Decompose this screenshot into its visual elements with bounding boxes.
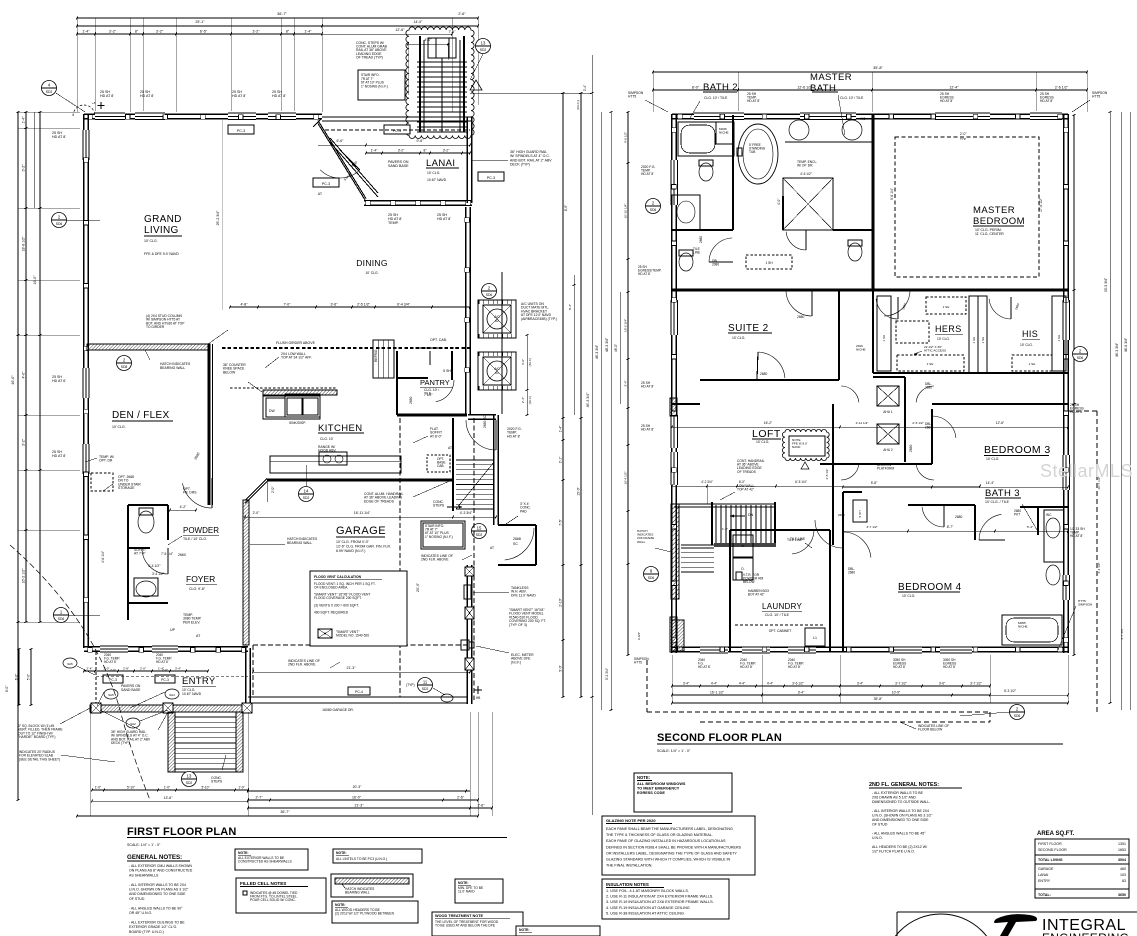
svg-text:U.N.O. SHOWN ON PLANS AS 3 1/2: U.N.O. SHOWN ON PLANS AS 3 1/2" — [129, 888, 189, 892]
svg-text:STORAGE: STORAGE — [118, 486, 135, 490]
svg-text:NOTE:: NOTE: — [637, 775, 650, 780]
svg-text:2X6 DRAWN AS 5 1/2" AND: 2X6 DRAWN AS 5 1/2" AND — [872, 796, 916, 800]
reference circle 1/SD6 left lower — [54, 608, 69, 623]
svg-text:5'-8": 5'-8" — [871, 481, 878, 485]
svg-text:14'-4": 14'-4" — [986, 481, 995, 485]
interior dim row mid plan — [230, 306, 470, 308]
svg-text:5'-3 1/2": 5'-3 1/2" — [1004, 689, 1017, 693]
svg-text:SAND BASE: SAND BASE — [121, 688, 141, 692]
mud hall wall y415 — [397, 414, 467, 417]
svg-text:5'-0": 5'-0" — [27, 674, 31, 680]
svg-text:TUB: TUB — [749, 150, 755, 154]
svg-text:BEDROOM: BEDROOM — [973, 216, 1025, 227]
svg-text:PC-3: PC-3 — [322, 182, 330, 186]
svg-text:4'-2 3/4": 4'-2 3/4" — [701, 480, 713, 484]
smart vent xbox 1 — [465, 567, 474, 576]
second floor bottom dim row 35'-8 — [672, 702, 1068, 704]
foyer sink oval — [136, 581, 156, 597]
svg-text:3'-2": 3'-2" — [156, 30, 164, 34]
svg-text:10' CLG.: 10' CLG. — [756, 440, 769, 444]
svg-text:14'-0": 14'-0" — [414, 20, 423, 24]
svg-text:3'-4": 3'-4" — [798, 691, 805, 695]
svg-text:HD AT 8': HD AT 8' — [893, 665, 906, 669]
svg-text:10' CLG.: 10' CLG. — [144, 239, 158, 243]
svg-text:1'-4": 1'-4" — [559, 425, 563, 432]
svg-text:W/ 24" DR.: W/ 24" DR. — [797, 164, 813, 168]
svg-text:LANAI: LANAI — [426, 158, 455, 169]
svg-text:HD AT 8': HD AT 8' — [641, 385, 654, 389]
svg-text:SD6: SD6 — [1014, 714, 1021, 718]
svg-text:5'-10": 5'-10" — [127, 786, 135, 790]
svg-text:SD6: SD6 — [648, 576, 655, 580]
reference circle 13/SD2 top — [476, 39, 491, 54]
svg-text:2660: 2660 — [178, 553, 186, 557]
svg-text:L1: L1 — [813, 636, 817, 640]
svg-text:(N.I.F.): (N.I.F.) — [528, 358, 532, 366]
svg-text:25'-2 3/4": 25'-2 3/4" — [216, 210, 220, 226]
note box: wood headers — [332, 901, 418, 923]
top dimension line 25'-1" — [77, 25, 322, 27]
svg-text:1/2" FLITCH PLATE U.N.O.: 1/2" FLITCH PLATE U.N.O. — [872, 850, 915, 854]
PC-3 label box top 1 — [228, 125, 254, 134]
svg-text:WC: WC — [1046, 513, 1052, 517]
right plan wall posts left — [672, 128, 677, 133]
svg-text:TO GIRDER: TO GIRDER — [146, 325, 165, 329]
svg-text:EDGE OF TREADS: EDGE OF TREADS — [364, 499, 395, 503]
svg-text:2'-5 1/2": 2'-5 1/2" — [912, 421, 923, 425]
loft ffe note cloud box — [782, 429, 829, 460]
reference circle 2/SD8 den — [117, 356, 132, 371]
svg-text:StellarMLS: StellarMLS — [1040, 461, 1133, 481]
svg-text:9A5: 9A5 — [108, 693, 114, 697]
svg-text:HD AT 6': HD AT 6' — [52, 379, 66, 383]
svg-text:THE TYPE & THICKNESS OF GLASS: THE TYPE & THICKNESS OF GLASS OR GLAZING… — [606, 833, 713, 837]
closet door arcs — [876, 299, 898, 319]
svg-text:DECK (TYP): DECK (TYP) — [510, 163, 530, 167]
svg-text:SD6: SD6 — [486, 293, 493, 297]
svg-text:NOTE:: NOTE: — [336, 851, 347, 855]
reference circle 15/SD2 — [472, 524, 487, 539]
svg-text:13'-6": 13'-6" — [164, 796, 174, 800]
svg-text:NICHE: NICHE — [719, 130, 729, 134]
svg-text:13: 13 — [481, 41, 486, 46]
hers wardrobe shelves — [877, 296, 891, 371]
door bay 2668 SC — [498, 524, 536, 526]
corridor wall x932 — [931, 409, 933, 464]
filled cell notes box — [236, 878, 326, 913]
bath3 vanity + wc — [1044, 510, 1064, 562]
svg-text:5 SH: 5 SH — [858, 511, 862, 518]
exterior stairs top bay - scalloped cloud outline — [406, 27, 474, 139]
porch deck edge hatched band — [90, 705, 252, 712]
svg-text:35'-8": 35'-8" — [873, 66, 883, 70]
ahu closet walls — [873, 376, 905, 378]
PC-3 label box lanai left — [313, 178, 339, 187]
svg-text:SECOND FLOOR: SECOND FLOOR — [1038, 848, 1067, 852]
bath2 toilet — [699, 163, 713, 181]
svg-text:6'-4 3/4": 6'-4 3/4" — [397, 303, 411, 307]
bath2 / master bath divider wall — [732, 115, 734, 230]
svg-text:3'-2": 3'-2" — [109, 30, 117, 34]
svg-text:EACH PANE OF GLAZING INSTALLED: EACH PANE OF GLAZING INSTALLED IN HAZARD… — [606, 839, 726, 843]
flood vent calculation box — [310, 571, 407, 646]
svg-text:9'-6 1/4": 9'-6 1/4" — [890, 187, 894, 200]
svg-text:CLG. 9'-8": CLG. 9'-8" — [189, 587, 206, 591]
svg-text:WALL: WALL — [637, 540, 646, 544]
first floor plan: top dimension line 36'-7" — [77, 17, 478, 19]
svg-text:3'-4": 3'-4" — [683, 682, 689, 686]
reference circle 13/SD2 bottom steps — [182, 772, 197, 787]
svg-text:MODEL NO. 1540-520: MODEL NO. 1540-520 — [336, 634, 369, 638]
closet bottom wall y373 — [873, 372, 1068, 374]
svg-text:ENGINEERING: ENGINEERING — [1042, 931, 1129, 936]
svg-text:AREA SQ.FT.: AREA SQ.FT. — [1037, 831, 1074, 837]
wall posts top wall — [88, 115, 93, 120]
left wall window gaps — [81, 130, 90, 160]
svg-text:- ALL INTERIOR WALLS TO BE 2X: - ALL INTERIOR WALLS TO BE 2X4 — [129, 883, 186, 887]
svg-text:5'-0": 5'-0" — [559, 664, 563, 671]
east wall posts — [465, 218, 470, 223]
svg-text:1'-0": 1'-0" — [164, 786, 170, 790]
svg-text:- ALL EXTERIOR WALLS TO BE: - ALL EXTERIOR WALLS TO BE — [872, 791, 924, 795]
svg-text:REFRIG: REFRIG — [374, 349, 378, 362]
svg-text:16'-1 1/2": 16'-1 1/2" — [710, 691, 725, 695]
svg-text:PC-3: PC-3 — [237, 129, 245, 133]
kitchen diagonal wall — [245, 479, 267, 501]
svg-text:TILE / 10' CLG.: TILE / 10' CLG. — [183, 537, 207, 541]
svg-text:2680 SC: 2680 SC — [483, 415, 487, 428]
svg-text:TYP: TYP — [960, 137, 966, 141]
svg-text:46'-3 3/4": 46'-3 3/4" — [595, 344, 599, 359]
lanai dashed line below railing — [325, 129, 470, 131]
second floor top dim extensions — [652, 72, 654, 112]
svg-text:HD AT 8': HD AT 8' — [1070, 534, 1083, 538]
second floor exterior wall bottom — [672, 646, 1068, 648]
svg-text:#2: #2 — [495, 319, 499, 323]
svg-text:83: 83 — [1122, 879, 1126, 883]
svg-text:PER ELEV.: PER ELEV. — [183, 620, 200, 624]
svg-text:PAD: PAD — [520, 509, 527, 513]
svg-text:3'-2": 3'-2" — [252, 30, 260, 34]
svg-text:ON PLANS AS 8" AND CONSTRUCTED: ON PLANS AS 8" AND CONSTRUCTED — [129, 869, 193, 873]
svg-text:HD AT 8': HD AT 8' — [940, 99, 953, 103]
left plan far right dim line — [591, 55, 593, 815]
exterior stairs bottom-left treads — [175, 716, 236, 718]
svg-text:25'-1": 25'-1" — [195, 20, 205, 24]
reference circle 11/SD2 garage door — [418, 678, 433, 693]
svg-text:20'-4": 20'-4" — [416, 582, 420, 592]
grand living / dining divider reference line — [221, 119, 223, 310]
svg-text:NOTE:: NOTE: — [519, 928, 530, 932]
master bedroom tray ceiling dashed — [895, 137, 1039, 277]
svg-text:1'-0": 1'-0" — [722, 527, 728, 531]
svg-text:3'-4": 3'-4" — [624, 380, 628, 386]
svg-text:4'-0": 4'-0" — [22, 371, 26, 379]
svg-text:3650: 3650 — [1118, 893, 1126, 897]
svg-text:BEDROOM 3: BEDROOM 3 — [984, 444, 1051, 456]
powder room toilet — [138, 511, 154, 533]
svg-text:16'-0": 16'-0" — [352, 796, 362, 800]
bath2 niche — [716, 122, 734, 144]
svg-text:4'-6 1/2": 4'-6 1/2" — [800, 172, 812, 176]
garage door opening wall — [248, 696, 467, 698]
suite2 bath fixtures below bath2 — [679, 253, 693, 271]
svg-text:HD AT 8': HD AT 8' — [437, 217, 451, 221]
master bath / master bedroom divider — [872, 115, 875, 290]
svg-text:2'-4": 2'-4" — [87, 667, 93, 671]
svg-text:FIRST FLOOR PLAN: FIRST FLOOR PLAN — [127, 826, 237, 838]
ahu 2 xbox — [877, 424, 899, 444]
svg-text:7'-0": 7'-0" — [284, 303, 292, 307]
main divider wall y290 — [672, 289, 1068, 292]
svg-text:OPT. CABINET: OPT. CABINET — [769, 629, 792, 633]
svg-text:460 SQFT. REQUIRED: 460 SQFT. REQUIRED — [314, 610, 349, 614]
svg-text:6.99' NAVD (N.I.F.): 6.99' NAVD (N.I.F.) — [336, 549, 365, 553]
svg-text:UP: UP — [170, 628, 176, 632]
svg-text:1'-4": 1'-4" — [22, 116, 26, 124]
entry window gaps front wall — [100, 644, 128, 653]
svg-text:- ALL EXTERIOR CMU WALLS SHOW: - ALL EXTERIOR CMU WALLS SHOWN — [129, 864, 192, 868]
svg-text:1351: 1351 — [1118, 842, 1126, 846]
svg-text:LOFT: LOFT — [752, 428, 781, 440]
svg-text:9A5: 9A5 — [67, 662, 73, 666]
svg-text:HD AT 8': HD AT 8' — [641, 172, 654, 176]
lanai east wall — [466, 117, 468, 203]
stair stringers top bay — [419, 36, 421, 132]
svg-text:16080 GARAGE DR.: 16080 GARAGE DR. — [322, 708, 354, 712]
dashed line of 2nd floor above (vertical 2) — [399, 418, 401, 697]
svg-text:460: 460 — [1120, 867, 1126, 871]
svg-text:BOARD (TYP. U.N.O.): BOARD (TYP. U.N.O.) — [129, 930, 164, 934]
svg-text:FIRST FLOOR: FIRST FLOOR — [1038, 842, 1062, 846]
svg-text:5'-4": 5'-4" — [1027, 525, 1033, 529]
svg-text:2'-6 1/2": 2'-6 1/2" — [1055, 86, 1069, 90]
insulation notes box — [602, 879, 729, 919]
exterior stair treads top bay — [417, 61, 467, 63]
svg-text:3004: 3004 — [1118, 858, 1126, 862]
bottom wall window gaps — [700, 646, 728, 655]
svg-text:5 SH: 5 SH — [443, 369, 451, 373]
svg-text:PC-3: PC-3 — [161, 678, 169, 682]
second floor exterior wall top — [672, 113, 1068, 115]
svg-text:ENTRY: ENTRY — [1038, 879, 1051, 883]
svg-text:DN: DN — [748, 513, 754, 517]
svg-text:LANAI: LANAI — [1038, 873, 1048, 877]
svg-text:16'-4 1/2": 16'-4 1/2" — [624, 471, 628, 484]
area sqft table — [1035, 839, 1129, 898]
svg-text:16'-11 1/4": 16'-11 1/4" — [354, 511, 371, 515]
stairs down (second floor) — [711, 502, 713, 545]
svg-text:ALL HEADERS TO BE (2) 2X12 W/: ALL HEADERS TO BE (2) 2X12 W/ — [872, 845, 927, 849]
svg-text:5'-3 3/4": 5'-3 3/4" — [605, 667, 609, 680]
svg-text:HD AT 8': HD AT 8' — [638, 272, 651, 276]
svg-text:ALL BEDROOM WINDOWS: ALL BEDROOM WINDOWS — [637, 782, 686, 786]
svg-text:FFE & DFE 9.0' NAVD: FFE & DFE 9.0' NAVD — [144, 252, 179, 256]
smart vent xbox 3 — [465, 658, 474, 670]
svg-text:4'-7 1/4": 4'-7 1/4" — [1120, 628, 1124, 639]
svg-text:1 SH: 1 SH — [972, 337, 976, 344]
svg-text:4'-4": 4'-4" — [767, 682, 773, 686]
svg-text:2'-6": 2'-6" — [458, 12, 466, 16]
right plan wall posts bottom — [678, 647, 683, 652]
svg-text:2'-0": 2'-0" — [110, 668, 116, 672]
svg-text:DEN / FLEX: DEN / FLEX — [112, 410, 169, 421]
svg-text:2'-6": 2'-6" — [457, 796, 465, 800]
svg-text:- ALL EXTERIOR CEILINGS TO BE: - ALL EXTERIOR CEILINGS TO BE — [129, 920, 185, 924]
bath3 walls — [908, 504, 975, 506]
corner dashed arc top-left — [73, 105, 95, 116]
bath3 5SH closet — [853, 500, 867, 522]
reference circle 4/SD2 — [42, 81, 57, 96]
svg-text:10' CLG.: 10' CLG. — [1020, 343, 1033, 347]
right wall window gaps — [1062, 300, 1071, 340]
svg-text:12'-6" CLG. FROM GAR. FIN. FLR: 12'-6" CLG. FROM GAR. FIN. FLR. — [336, 544, 391, 548]
PC-3 box entry 1 — [103, 675, 123, 683]
svg-text:1 SH: 1 SH — [765, 261, 773, 265]
reference circle 2/SD6 right — [1073, 347, 1088, 362]
svg-text:10' CLG. FROM 0'-0": 10' CLG. FROM 0'-0" — [336, 540, 370, 544]
svg-text:ALL LINTELS TO BE PC3 (U.N.O.): ALL LINTELS TO BE PC3 (U.N.O.) — [336, 857, 387, 861]
top wall window gaps — [95, 111, 125, 120]
svg-text:46'-0": 46'-0" — [11, 375, 15, 385]
svg-text:16'-2 1/2": 16'-2 1/2" — [22, 568, 26, 584]
svg-text:3'-4 1/2": 3'-4 1/2" — [148, 564, 161, 568]
svg-text:BATH 3: BATH 3 — [985, 488, 1020, 499]
svg-text:FOYER: FOYER — [186, 574, 215, 584]
svg-text:SD6: SD6 — [56, 222, 63, 226]
pantry door arc — [436, 380, 454, 402]
svg-text:(N.I.F.): (N.I.F.) — [511, 660, 521, 664]
entry reference ovals — [63, 658, 77, 668]
svg-text:STEPS: STEPS — [433, 504, 445, 508]
logo circle — [883, 914, 999, 936]
reference circle 14/SD2 — [299, 487, 314, 502]
left plan right-side dim col 1 — [562, 93, 564, 697]
svg-text:+8: +8 — [92, 101, 96, 105]
refrigerator dashed box — [373, 340, 394, 378]
svg-text:CLG. 10' / TILE: CLG. 10' / TILE — [704, 96, 728, 100]
svg-text:1 SH: 1 SH — [927, 362, 934, 366]
svg-text:6'-5": 6'-5" — [200, 30, 208, 34]
bedroom4 door arcs — [815, 520, 843, 548]
second floor top dim row 2 — [653, 89, 1087, 91]
svg-text:HIS: HIS — [1022, 329, 1038, 339]
svg-text:LINE: LINE — [693, 250, 700, 254]
svg-text:14: 14 — [304, 489, 309, 494]
opt base cab dashed — [427, 455, 450, 472]
exterior stairs bottom-left rails — [168, 712, 175, 772]
den door 2680 — [183, 483, 213, 508]
svg-text:46'-3 3/4": 46'-3 3/4" — [586, 392, 590, 408]
svg-text:FLOOD COVERAGE 200 SQFT.: FLOOD COVERAGE 200 SQFT. — [314, 596, 362, 600]
svg-text:10' CLG. / TILE: 10' CLG. / TILE — [985, 500, 1010, 504]
svg-text:SD6: SD6 — [58, 617, 65, 621]
den/flex right wall — [208, 344, 211, 505]
svg-text:46'-3 3/4": 46'-3 3/4" — [1115, 342, 1119, 357]
svg-text:DIMENSIONED TO OUTSIDE WALL.: DIMENSIONED TO OUTSIDE WALL. — [872, 800, 930, 804]
svg-text:POUR CELL SOLID W/ CONC.: POUR CELL SOLID W/ CONC. — [250, 898, 296, 902]
laundry appliances — [733, 535, 753, 557]
svg-text:AT: AT — [490, 546, 494, 550]
svg-text:STEPS: STEPS — [211, 780, 223, 784]
svg-text:THE FINAL INSTALLATION.: THE FINAL INSTALLATION. — [606, 864, 652, 868]
svg-text:4'-4 1/2": 4'-4 1/2" — [1097, 562, 1101, 573]
stair low wall — [674, 503, 774, 505]
svg-text:SINK/DISP.: SINK/DISP. — [289, 421, 306, 425]
svg-text:12'-6": 12'-6" — [996, 421, 1005, 425]
loft dims row y427 — [672, 426, 1068, 428]
svg-text:HD AT 8': HD AT 8' — [943, 665, 956, 669]
svg-text:21'-3": 21'-3" — [355, 804, 365, 808]
svg-text:12'-4": 12'-4" — [949, 86, 959, 90]
svg-text:6'-6": 6'-6" — [337, 139, 345, 143]
svg-text:- ALL ANGLED WALLS TO BE 90°: - ALL ANGLED WALLS TO BE 90° — [129, 906, 183, 910]
svg-text:2'-5 1/2": 2'-5 1/2" — [357, 303, 371, 307]
left vertical dim rows — [25, 112, 27, 622]
svg-text:DFE 11.0' NAVD: DFE 11.0' NAVD — [511, 593, 536, 597]
svg-text:1'-0": 1'-0" — [95, 786, 101, 790]
smart vent xbox 2 — [465, 607, 474, 619]
reference circle 2/SD6 second floor — [646, 199, 661, 214]
svg-text:48'-0": 48'-0" — [614, 344, 618, 352]
svg-text:SCALE: 1/4" = 1' - 0": SCALE: 1/4" = 1' - 0" — [657, 749, 691, 753]
svg-text:PC-3: PC-3 — [109, 678, 117, 682]
svg-text:OF STUD: OF STUD — [872, 823, 888, 827]
svg-text:HD AT 8': HD AT 8' — [740, 665, 753, 669]
laundry opt cabinet — [735, 624, 825, 626]
svg-text:AT 7'-4": AT 7'-4" — [134, 552, 147, 556]
svg-text:5'-10": 5'-10" — [201, 786, 209, 790]
lanai diagonal exterior wall — [318, 121, 366, 199]
svg-text:LAUNDRY: LAUNDRY — [762, 602, 803, 611]
svg-text:2'-1": 2'-1" — [559, 456, 563, 463]
svg-text:1'-0": 1'-0" — [238, 786, 244, 790]
reference circle 2/SD6 bottom right — [1010, 705, 1025, 720]
a/c dim ticks — [526, 335, 528, 415]
svg-text:SECOND FLOOR PLAN: SECOND FLOOR PLAN — [657, 732, 782, 744]
svg-text:10'-10 1/4": 10'-10 1/4" — [624, 204, 628, 219]
svg-text:6'-0": 6'-0" — [15, 674, 19, 680]
left vertical dim line 46'-0" — [17, 112, 19, 800]
svg-text:1 SH: 1 SH — [882, 335, 886, 342]
svg-text:BATH: BATH — [810, 83, 836, 94]
svg-text:10' CLG.: 10' CLG. — [732, 336, 745, 340]
svg-text:EXTERIOR GRADE 1/2" CL'G.: EXTERIOR GRADE 1/2" CL'G. — [129, 925, 177, 929]
svg-text:GENERAL NOTES:: GENERAL NOTES: — [127, 854, 182, 861]
+8 marker — [100, 102, 102, 109]
svg-text:SD6: SD6 — [1077, 356, 1084, 360]
svg-text:8'-0": 8'-0" — [692, 86, 700, 90]
svg-text:2680: 2680 — [925, 385, 932, 389]
svg-text:PKT: PKT — [1014, 512, 1020, 516]
svg-text:18'-8 1/2": 18'-8 1/2" — [22, 236, 26, 252]
svg-text:SD2: SD2 — [186, 781, 193, 785]
svg-text:BEDROOM 4: BEDROOM 4 — [898, 582, 962, 593]
svg-text:SD6: SD6 — [650, 208, 657, 212]
svg-text:W.: W. — [741, 544, 745, 548]
svg-text:11.0' NAVD: 11.0' NAVD — [458, 890, 475, 894]
svg-text:(TYP. OF 3): (TYP. OF 3) — [509, 623, 527, 627]
svg-text:OPT. DR: OPT. DR — [99, 459, 113, 463]
master bath shower — [783, 178, 833, 230]
svg-text:AT 8'-0": AT 8'-0" — [430, 434, 443, 438]
svg-text:DECK (TYP): DECK (TYP) — [111, 741, 130, 745]
lanai south wall (dining boundary) — [364, 200, 472, 202]
left plan bottom dim row 1 — [92, 789, 248, 791]
svg-text:KITCHEN: KITCHEN — [318, 423, 363, 434]
wall corridor bottom y464 — [820, 463, 932, 465]
svg-text:11' CLG. CENTER: 11' CLG. CENTER — [975, 232, 1004, 236]
